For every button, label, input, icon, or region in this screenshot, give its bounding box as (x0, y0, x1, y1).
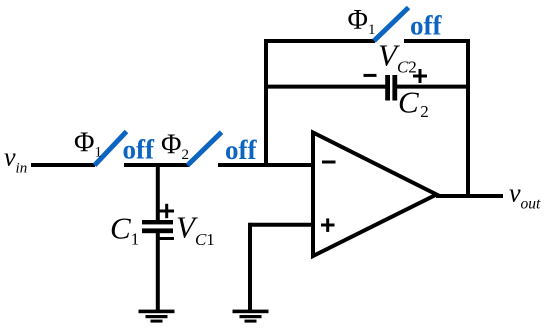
op-amp U1 body (313, 133, 437, 257)
switch S1 blade (open) (95, 132, 127, 166)
svg-text:off: off (225, 135, 257, 165)
feedback loop left vertical wire (264, 39, 268, 167)
wire op-amp output (436, 194, 503, 198)
svg-text:Φ2: Φ2 (161, 130, 189, 163)
feedback top wire left segment (264, 39, 375, 43)
ground GND2 (233, 310, 269, 323)
svg-text:VC2: VC2 (378, 37, 417, 76)
capacitor C2 right plate (392, 75, 397, 101)
feedback right vertical wire (466, 39, 470, 198)
capacitor C2 left plate (385, 75, 390, 101)
wire op-amp plus input horizontal (250, 223, 313, 227)
svg-text:C1: C1 (110, 211, 139, 249)
capacitor C1 top plate (142, 220, 173, 224)
minus sign of C1 polarity (159, 237, 175, 240)
wire between S1 and S2 (124, 163, 190, 167)
plus sign of C2 polarity (413, 69, 427, 83)
svg-text:Φ1: Φ1 (74, 128, 102, 161)
svg-text:C2: C2 (398, 84, 429, 121)
svg-text:off: off (410, 11, 442, 41)
minus sign of C2 polarity (364, 74, 377, 77)
wire C1 bottom stem (156, 233, 160, 310)
capacitor C1 bottom plate (142, 228, 173, 233)
wire C2 branch right (397, 85, 470, 89)
switch S3 blade (open, feedback) (374, 8, 409, 41)
op-amp inverting input symbol (322, 161, 336, 164)
wire plus input down to ground (248, 223, 252, 310)
wire S2 to op-amp inverting input (218, 163, 315, 167)
svg-text:vout: vout (509, 178, 541, 212)
wire vin to switch S1 (31, 163, 95, 167)
ground GND1 (139, 310, 175, 323)
svg-text:off: off (123, 135, 155, 165)
feedback top wire right segment (404, 39, 470, 43)
wire C1 top stem (156, 163, 160, 221)
svg-text:vin: vin (4, 143, 27, 177)
svg-text:VC1: VC1 (176, 210, 215, 250)
switch S2 blade (open) (188, 132, 222, 165)
plus sign of C1 polarity (160, 204, 175, 218)
svg-text:Φ1: Φ1 (348, 5, 376, 38)
op-amp non-inverting input symbol (321, 218, 335, 232)
wire C2 branch left (264, 85, 386, 89)
